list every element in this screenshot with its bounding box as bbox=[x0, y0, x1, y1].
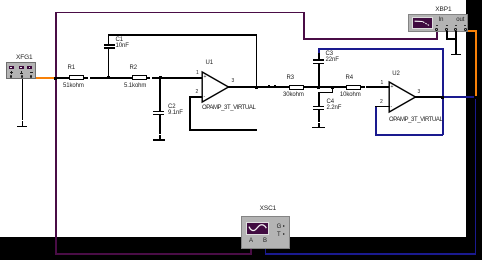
wire: navy U2 lower feedback bottom bbox=[375, 134, 443, 136]
black screen border right bbox=[466, 0, 482, 260]
wire: purple riser to XBP1 In+ terminal bbox=[436, 30, 438, 39]
node: C4 tap bbox=[331, 86, 334, 89]
node: output node bbox=[474, 96, 477, 99]
capacitor C4 jog bbox=[332, 87, 334, 93]
ground under XFG1 bbox=[22, 121, 24, 126]
oscilloscope XSC1 bbox=[241, 216, 290, 249]
wire: navy XSC1 B pin drop bbox=[265, 244, 267, 255]
wire: R2 to U1 pin1 bbox=[152, 77, 204, 79]
wire: navy output column up to node bbox=[475, 97, 477, 254]
wire: purple probe net vertical left bbox=[55, 12, 57, 255]
op-amp U1 bbox=[201, 70, 231, 104]
wire: U1 pin2 stub bbox=[189, 96, 202, 98]
wire: R1 lead right bbox=[84, 77, 88, 79]
node: U1 output junction bbox=[255, 86, 258, 89]
node: input junction bbox=[54, 77, 57, 80]
wire: U2 output bbox=[415, 96, 443, 98]
wire: pin nubs on stage 2 row bbox=[268, 85, 270, 86]
wire: U1 feedback left vertical bbox=[189, 96, 191, 130]
wire: purple riser XSC1 A pin bbox=[250, 244, 252, 255]
wire: R3 to R4 bbox=[304, 86, 347, 88]
capacitor C3 bbox=[318, 53, 320, 60]
resistor R2 bbox=[132, 75, 147, 80]
wire: purple to XBP1 In+ bbox=[303, 38, 438, 40]
wire: navy U2 lower feedback left vertical bbox=[375, 106, 377, 135]
label XFG1 bbox=[16, 55, 33, 61]
wire: R2 lead right bbox=[147, 77, 151, 79]
wire: R1/R2 segment bbox=[90, 77, 132, 79]
node: U2 feedback junction bbox=[441, 96, 444, 99]
wire: purple probe net top horizontal bbox=[55, 12, 304, 14]
resistor R3 bbox=[289, 85, 304, 90]
wire: XBP1 ground column bbox=[455, 31, 457, 54]
wire: navy C3 feedback stub above C3 bbox=[318, 48, 320, 53]
bode plotter XBP1 bbox=[408, 14, 468, 33]
XFG1 terminal marks bbox=[10, 72, 13, 73]
wire: R4 to U2 pin1 bbox=[366, 86, 389, 88]
node: C1 tap bbox=[107, 76, 110, 79]
wire: R4 lead right bbox=[361, 86, 365, 88]
capacitor C2 bbox=[159, 78, 161, 111]
wire: U1 output bbox=[228, 86, 289, 88]
op-amp U2 bbox=[388, 80, 418, 114]
function generator XFG1 bbox=[6, 62, 36, 80]
wire: U1 feedback bottom bbox=[189, 129, 257, 131]
ground under C4 bbox=[318, 123, 320, 127]
wire: purple jog down at x=303 bbox=[303, 12, 305, 40]
wire: orange drop to output node bbox=[475, 30, 477, 97]
wire: navy C3 feedback top horizontal bbox=[318, 48, 443, 50]
ground under C2 bbox=[159, 135, 161, 140]
wire: purple bottom run to XSC1 A bbox=[55, 253, 251, 255]
node: C3 tap bbox=[317, 86, 320, 89]
wire: navy bottom run to output node bbox=[265, 253, 477, 255]
wire: C1 feedback top bbox=[108, 34, 257, 36]
wire: feedback column down to output bbox=[256, 34, 258, 87]
wire: orange from XBP1 out bbox=[465, 30, 475, 32]
wire: U2 pin2 stub bbox=[375, 106, 390, 108]
resistor R4 bbox=[346, 85, 361, 90]
black screen border bottom bbox=[0, 237, 482, 260]
node: C2 tap bbox=[159, 76, 162, 79]
capacitor C1 bbox=[108, 48, 110, 78]
wire: XFG1 common down bbox=[22, 79, 24, 120]
wire: navy feedback right column bbox=[442, 48, 444, 135]
wire: orange XFG1 output bbox=[32, 77, 56, 79]
ground under XBP1 bbox=[451, 54, 462, 56]
resistor R1 bbox=[69, 75, 85, 80]
wire: input node to R1 bbox=[56, 77, 69, 79]
wire: navy node to U2 output bbox=[442, 96, 476, 98]
wire: XBP1 In- to ground jog bbox=[446, 31, 448, 39]
